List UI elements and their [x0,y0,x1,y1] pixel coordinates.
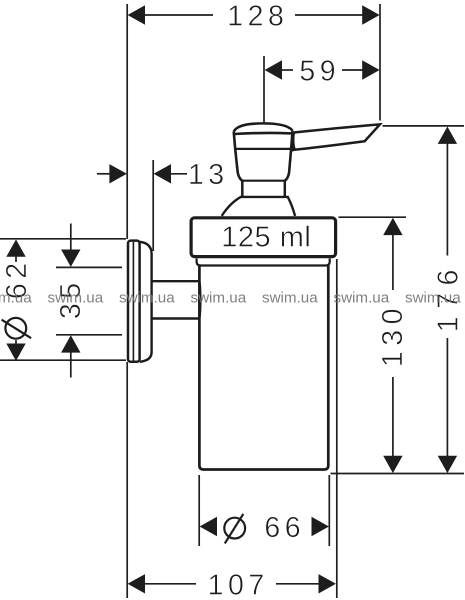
arrow 130 up [383,218,402,235]
arrow 176 down [438,456,457,473]
diameter symbol 66 [224,514,245,544]
arrow 35 down [61,250,80,267]
pump lever [292,124,380,150]
arrow o62 up [6,239,25,256]
svg-text:swim.ua: swim.ua [334,290,390,307]
dimension o62 line [15,255,17,262]
arrow o66 right [312,517,329,536]
svg-text:59: 59 [299,55,340,87]
glass lip [197,259,330,266]
dimension 13 line [97,173,111,175]
watermark row [0,290,461,307]
arrow o66 left [200,517,217,536]
svg-text:swim.ua: swim.ua [119,290,175,307]
pump cap top [234,123,293,131]
svg-text:125 ml: 125 ml [221,222,311,254]
svg-text:66: 66 [264,512,305,544]
arrow 107 left [128,574,145,593]
arrow 107 right [319,574,336,593]
pump cap rim [234,133,292,134]
extension line wall face x=153 [152,160,154,251]
svg-text:swim.ua: swim.ua [48,290,104,307]
extension line 130 top [339,216,407,218]
dimension 59 line [281,69,293,71]
extension line rosette bottom [0,359,126,361]
arrow 35 up [61,335,80,352]
dimension 176 line [446,143,448,256]
dimension 35 line [70,224,72,252]
holder collar [191,218,336,257]
arrow o62 down [6,344,25,361]
pump lever root [293,133,294,150]
arrow 176 up [438,127,457,144]
extension line collar right x=337 [336,259,338,598]
pump bulb [234,131,293,181]
extension line rosette top [0,238,126,240]
svg-text:swim.ua: swim.ua [0,290,32,307]
arrow 59 right [362,60,379,79]
dimension 128 line [144,14,213,16]
extension line bottom shared [331,473,465,475]
extension line pump top x=264 [263,56,265,123]
svg-text:128: 128 [227,0,288,32]
svg-text:swim.ua: swim.ua [191,290,247,307]
svg-text:107: 107 [208,570,269,600]
svg-text:13: 13 [188,159,229,191]
arrow 130 down [383,456,402,473]
extension line 35 top [56,266,122,268]
glass vessel [199,266,328,470]
arrow 59 left [265,60,282,79]
text 176 rotated [432,262,464,332]
text 35 rotated [55,278,87,319]
svg-text:swim.ua: swim.ua [262,290,318,307]
diameter symbol 62 [2,318,32,339]
arrow 128 left [128,5,145,24]
mounting arm [153,281,201,318]
dimension 130 line [392,234,394,290]
extension line right vertical x=380 [379,4,381,121]
arrow 13 right pointing left [154,164,171,183]
arrow 128 right [362,5,379,24]
svg-text:130: 130 [377,303,409,367]
extension line vessel left bottom [198,475,200,546]
arrow 13 left pointing right [109,164,126,183]
pump neck [242,181,286,197]
pump flare [222,197,295,216]
extension line 35 bottom [56,334,122,336]
wall rosette [128,241,152,362]
extension line 176 top [383,125,465,127]
text 62 rotated [1,258,33,338]
text 130 rotated [377,303,409,367]
svg-text:swim.ua: swim.ua [405,290,461,307]
extension line left vertical x=127 [126,4,128,239]
dimension 107 line [144,583,196,585]
extension line vessel right bottom [328,475,330,546]
